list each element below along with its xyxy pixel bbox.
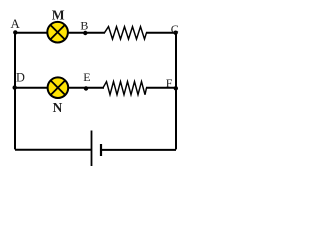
battery long plate [91, 131, 93, 167]
node E [84, 86, 88, 90]
svg-text:M: M [52, 8, 65, 23]
wire: D to lamp N [15, 87, 48, 89]
node A [13, 30, 17, 34]
wire: bottom left to battery [15, 149, 92, 151]
lamp M [47, 22, 68, 43]
wire: lamp M to B to resistor [68, 32, 105, 34]
wire: battery to bottom right [101, 149, 176, 151]
svg-text:D: D [16, 71, 25, 85]
battery short plate [100, 144, 102, 156]
resistor R2 [103, 82, 147, 95]
svg-text:A: A [11, 17, 21, 31]
wire: left rail A-D-bottom [14, 33, 16, 150]
wire: lamp N to E to resistor [69, 87, 105, 89]
svg-text:E: E [83, 70, 90, 84]
wire: resistor to C [146, 32, 176, 34]
node F [174, 86, 178, 90]
wire: resistor to F [146, 87, 176, 89]
node D [13, 85, 17, 89]
svg-text:C: C [171, 22, 179, 36]
wire: top A to lamp M [15, 32, 48, 34]
svg-text:B: B [80, 19, 88, 33]
svg-text:N: N [53, 100, 63, 115]
wire: right rail C-F-bottom [175, 33, 177, 150]
lamp N [48, 77, 69, 98]
node C [173, 31, 177, 35]
node B [83, 31, 87, 35]
svg-text:F: F [166, 76, 173, 90]
resistor R1 [105, 27, 147, 39]
